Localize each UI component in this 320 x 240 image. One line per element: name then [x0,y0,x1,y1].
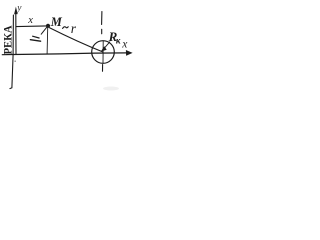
vertical centerline dash below circle [102,65,104,72]
svg-text:r: r [71,21,77,36]
ground x arrowhead [126,50,133,56]
svg-text:x: x [121,39,128,51]
label tilde of r [63,27,69,29]
velocity vector arrowhead barb lower [30,40,40,42]
faint scan smudge bottom right [103,87,119,91]
point M [46,24,50,28]
radius line r from M to circle center [49,28,103,52]
y-axis arrowhead [14,7,18,15]
ground x line [2,53,127,55]
svg-text:y: y [16,4,22,14]
y-axis [15,13,17,54]
scan speck near bank [14,61,16,62]
velocity vector arrowhead barb upper [33,36,40,38]
x-axis segment to M [16,25,47,28]
river bank left line [10,15,14,89]
svg-text:x: x [27,15,33,26]
velocity vector shaft from M [41,27,47,34]
vertical centerline short dash [101,29,103,34]
circle island [92,41,115,64]
svg-text:к: к [116,35,121,45]
radius leader line R [103,42,110,50]
ordinate line below M [46,28,49,54]
svg-text:РЕКА: РЕКА [1,25,15,54]
radius leader arrowhead [101,46,107,51]
svg-text:M: M [50,15,63,29]
vertical centerline inside circle [102,41,104,63]
vertical centerline dash above circle [101,12,103,25]
